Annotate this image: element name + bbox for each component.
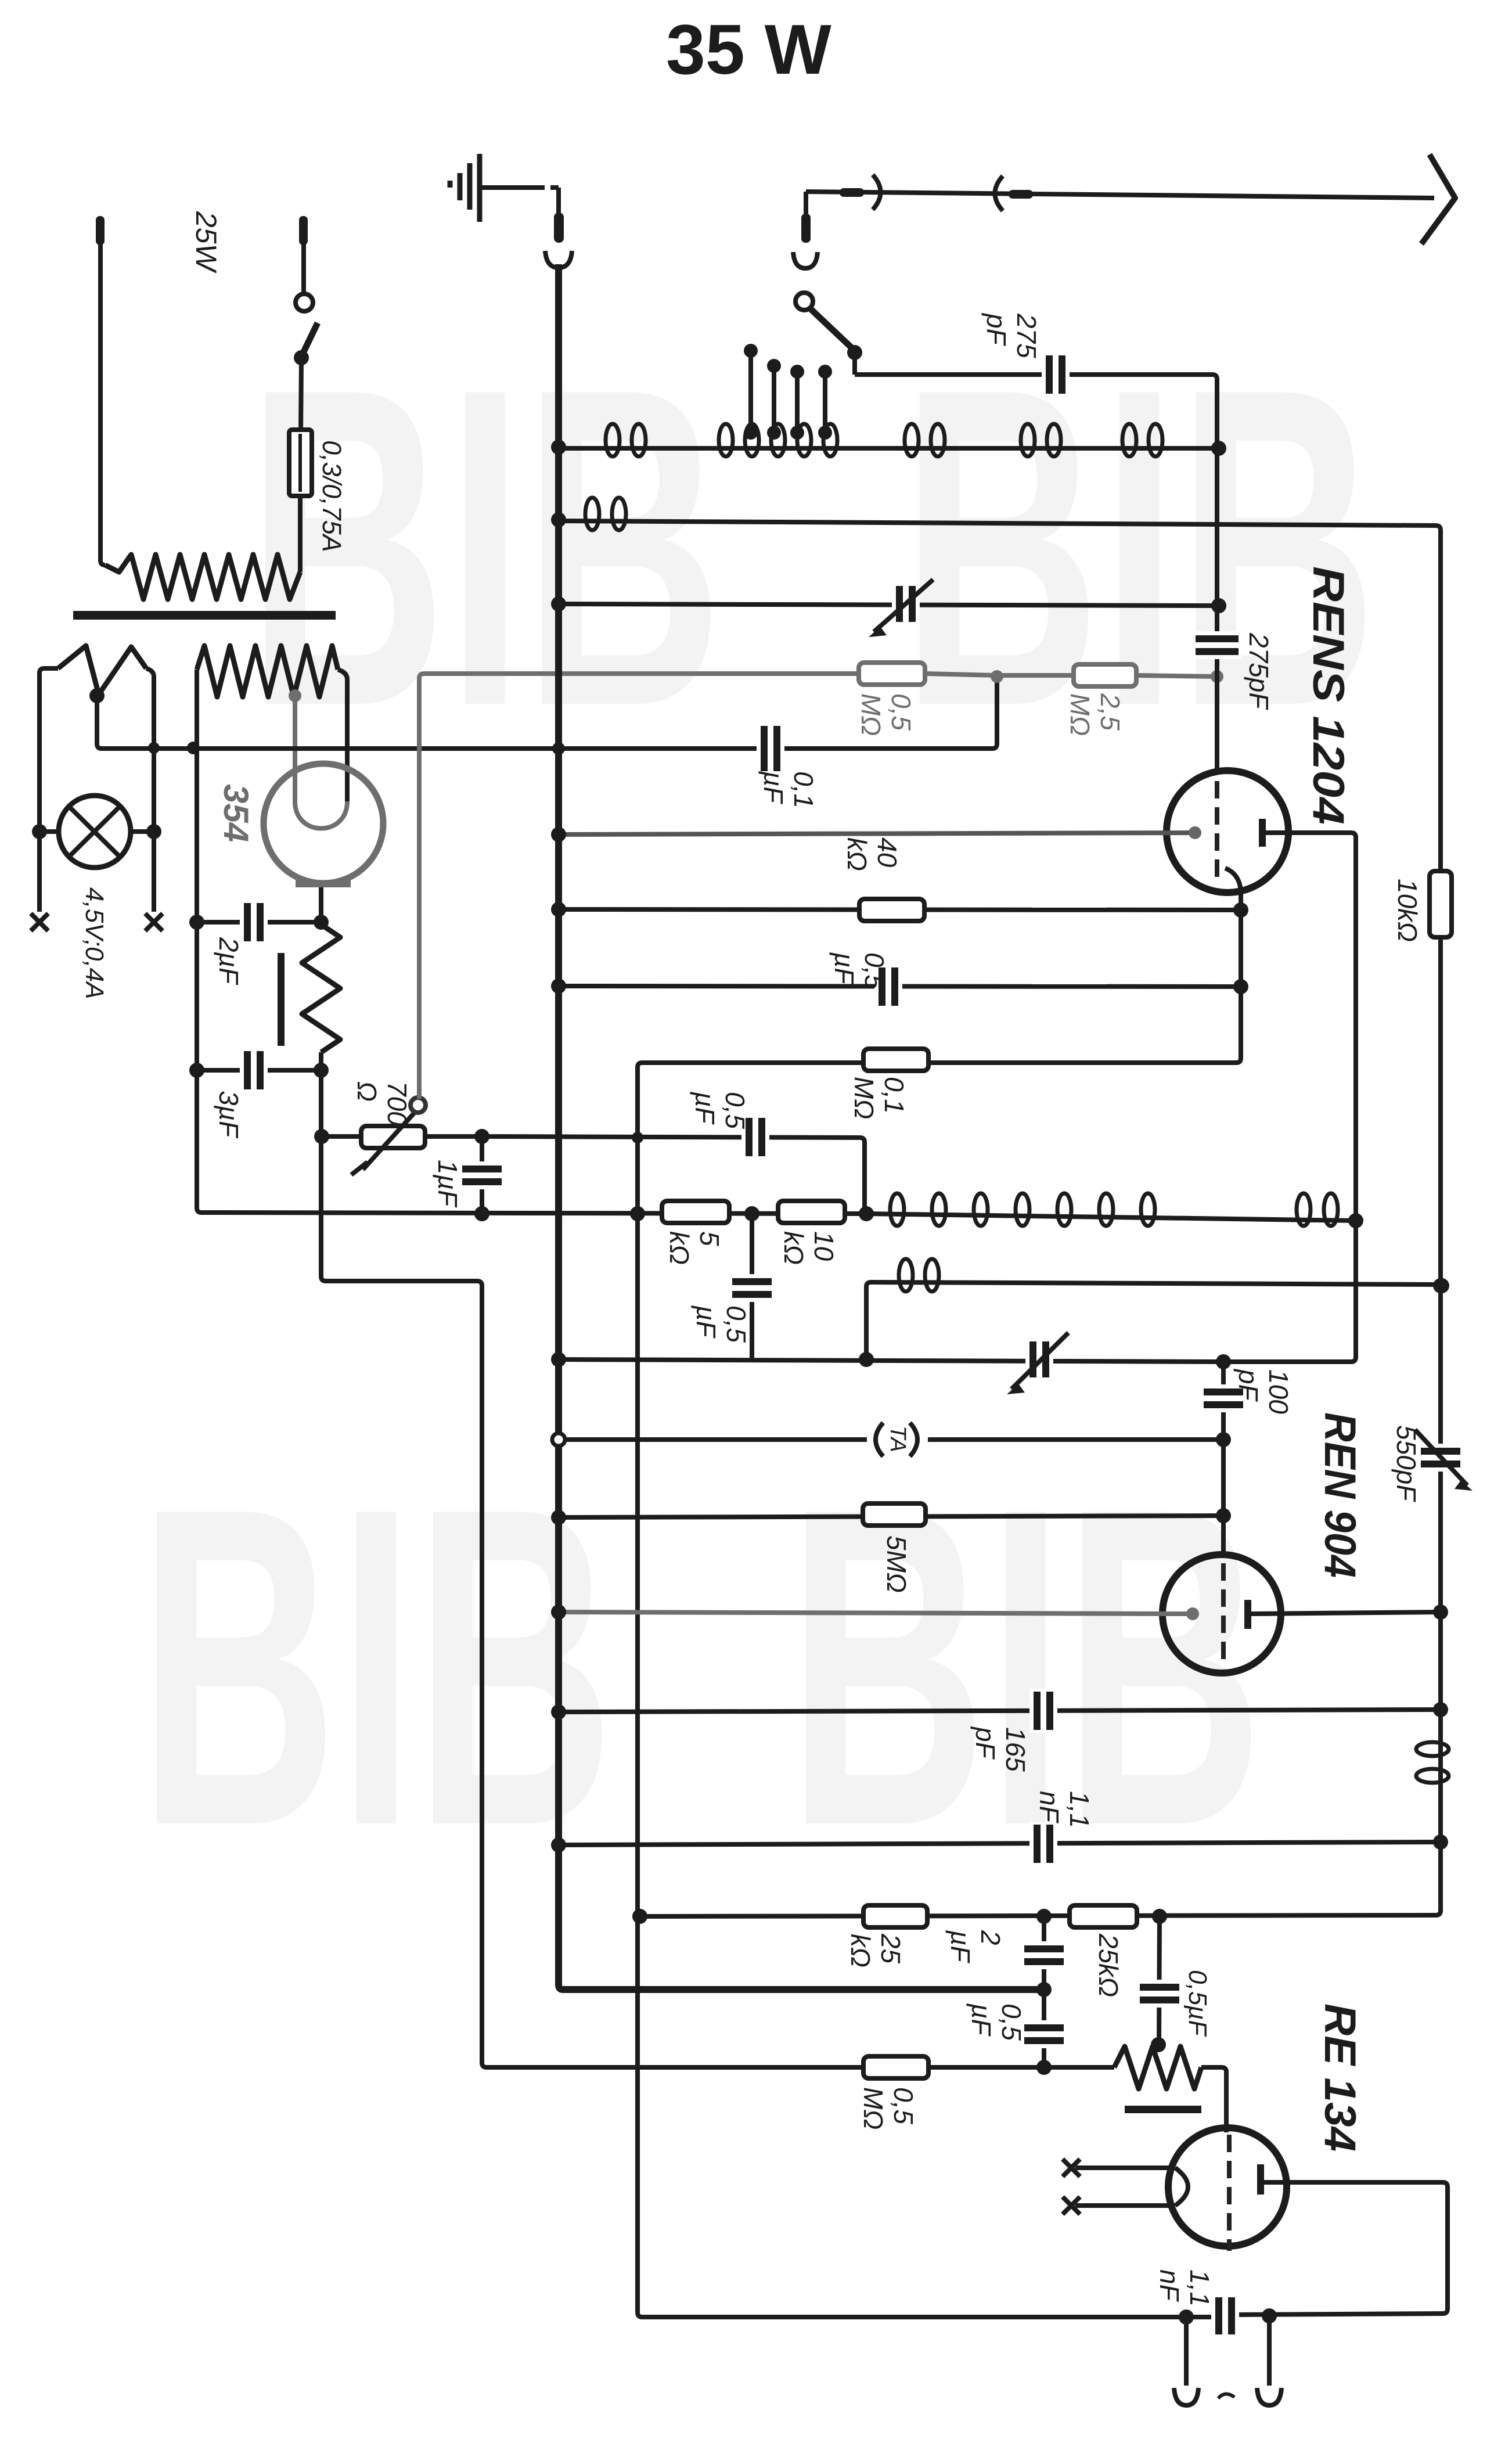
svg-text:REN 904: REN 904	[1315, 1412, 1365, 1578]
wire HT tap (gray)	[293, 696, 297, 803]
wire 40k line	[559, 909, 1241, 910]
capacitor 275pF (antenna)	[1042, 352, 1070, 397]
wire 0,5uF-e	[1159, 1916, 1160, 2045]
trimmer C (detector)	[1025, 1339, 1053, 1380]
wire 3uF line	[197, 1068, 321, 1073]
wire 165pF line	[559, 1710, 1441, 1712]
switch S1 lever	[301, 323, 318, 357]
0,5uF-e dot	[1151, 2037, 1166, 2052]
wire 25k line	[640, 1915, 1432, 1916]
mains lead L	[100, 244, 105, 565]
resistor 10 kOhm	[778, 1201, 845, 1223]
svg-text:4,5V;0,4A: 4,5V;0,4A	[80, 887, 109, 999]
resistor 25 kOhm B	[1070, 1905, 1137, 1927]
svg-text:10kΩ: 10kΩ	[1392, 879, 1423, 942]
svg-text:0,5µF: 0,5µF	[966, 2003, 1027, 2041]
tube RE134 envelope	[1168, 2128, 1287, 2246]
resistor 0,5 MOhm	[859, 663, 925, 685]
wire junction to 2,5M	[997, 673, 1074, 678]
L2 dot	[551, 512, 566, 527]
RE134 heater leads	[1075, 2165, 1175, 2170]
output dots	[1179, 2310, 1194, 2325]
wire tap to 0,1uF line	[97, 681, 997, 749]
capacitor 0,5uF-e	[1137, 1980, 1182, 2008]
svg-text:5MΩ: 5MΩ	[881, 1535, 912, 1593]
svg-text:2µF: 2µF	[214, 937, 244, 985]
bias bar RE134	[1125, 2106, 1201, 2113]
bias cell bar	[278, 953, 285, 1046]
capacitor 0,5uF-c	[729, 1274, 775, 1302]
resistor 5 MOhm	[863, 1503, 926, 1526]
wire grid tuning line	[559, 604, 1219, 606]
REN anode bar	[1244, 1600, 1251, 1629]
capacitor 1,1nF	[1029, 1822, 1057, 1866]
tube REN904 envelope	[1162, 1555, 1281, 1673]
svg-text:40kΩ: 40kΩ	[842, 837, 902, 871]
antenna arrow	[1421, 154, 1455, 244]
25k dots	[632, 1909, 647, 1924]
svg-text:25W: 25W	[190, 211, 222, 274]
tube RENS1204 envelope	[1167, 771, 1288, 893]
tube 354 cathode bar	[296, 880, 351, 887]
tap stubs	[748, 351, 753, 434]
L1 dots	[551, 440, 566, 455]
wire TA line R	[928, 1437, 1223, 1442]
fuse Si 0,3/0,75A	[289, 430, 312, 496]
svg-text:275pF: 275pF	[1244, 632, 1274, 710]
svg-text:0,5MΩ: 0,5MΩ	[856, 693, 916, 736]
switch S1 contact dot	[294, 350, 309, 365]
junction dot 0,5M	[991, 670, 1003, 683]
heater X marks	[1063, 2159, 1080, 2177]
svg-text:10kΩ: 10kΩ	[779, 1231, 839, 1265]
REN grid line (gray)	[559, 1612, 1193, 1614]
wire zig to 3uF	[319, 1052, 323, 1070]
capacitor 3uF	[240, 1048, 268, 1092]
antenna jack cup	[793, 252, 818, 268]
wire 2,5M to grid rail	[1136, 675, 1217, 677]
pot junction dot	[314, 1129, 329, 1144]
TA jack	[876, 1423, 883, 1456]
heater tap dot	[89, 688, 105, 703]
watermark	[138, 294, 1377, 1920]
wire 100pF	[1221, 1362, 1226, 1440]
svg-text:3µF: 3µF	[214, 1091, 244, 1139]
resistor 5 kOhm	[662, 1201, 729, 1223]
ground plug pin	[556, 188, 561, 214]
transformer HT winding (right)	[197, 646, 338, 697]
wire 2uF line	[197, 920, 321, 924]
svg-text:354: 354	[217, 784, 255, 842]
trimmer C (tuning)	[892, 583, 920, 625]
wire 5M line	[559, 1516, 1223, 1517]
capacitor 1uF	[459, 1161, 505, 1189]
wire RENS anode rail	[1223, 833, 1356, 1362]
transformer core	[73, 611, 336, 620]
resistor 40 kOhm	[859, 899, 924, 921]
capacitor 0,5uF-d	[1021, 2020, 1067, 2048]
wire pot L	[322, 1134, 361, 1139]
pot wiper circle	[411, 1098, 426, 1113]
TA dot	[1216, 1432, 1231, 1447]
capacitor 0,5uF-b	[741, 1115, 769, 1159]
wire RE134 anode out	[1233, 2182, 1448, 2315]
rectifier filament arc	[295, 801, 347, 829]
wire 100pF to REN grid	[1221, 1440, 1226, 1556]
svg-text:550pF: 550pF	[1391, 1425, 1421, 1502]
wire pot R	[425, 1134, 482, 1139]
wire 0,5M to junction	[925, 674, 997, 675]
wire RENS grid line	[559, 833, 1195, 834]
detector coil L3	[866, 1214, 1356, 1221]
L4 dots	[859, 1352, 874, 1367]
svg-text:2,5MΩ: 2,5MΩ	[1065, 693, 1125, 736]
svg-text:25kΩ: 25kΩ	[845, 1933, 906, 1967]
tap dots bottom	[744, 426, 758, 440]
RE134 filament arc	[1175, 2168, 1188, 2206]
1uF bottom dot	[474, 1206, 489, 1221]
antenna plug B	[995, 176, 1003, 211]
svg-text:0,5µF: 0,5µF	[829, 952, 890, 990]
wire REN anode	[1251, 1612, 1441, 1614]
grid zigzag RE134	[1114, 2046, 1201, 2089]
ground symbol	[477, 154, 483, 222]
coil on rail	[1416, 1742, 1449, 1756]
junction dots lamp	[32, 824, 47, 839]
terminal X right	[145, 913, 163, 931]
lamp leads	[39, 829, 59, 834]
antenna plug A	[840, 188, 864, 197]
grid rail dot gray	[1211, 670, 1223, 683]
svg-text:0,5MΩ: 0,5MΩ	[858, 2087, 919, 2129]
ant switch lever	[810, 308, 852, 348]
transformer primary winding	[105, 555, 300, 599]
chain dot2	[1036, 2060, 1052, 2075]
wire HT right end	[338, 670, 347, 803]
wire cathode rail down	[321, 1070, 1114, 2067]
RE134 anode bar	[1257, 2164, 1264, 2195]
feedback coil L4	[866, 1282, 1442, 1359]
svg-text:RE 134: RE 134	[1315, 2003, 1365, 2152]
L3 end dot	[1348, 1213, 1363, 1228]
pot R dot	[474, 1129, 489, 1144]
svg-text:0,5µF: 0,5µF	[1183, 1970, 1212, 2037]
output terminal A	[1184, 2317, 1189, 2386]
RENS grid dashes	[1215, 781, 1219, 798]
wire HT feed rail	[1432, 526, 1441, 1915]
tap dots top	[744, 344, 758, 358]
capacitor 1,1nF-b	[1211, 2294, 1239, 2337]
wire 354 cathode	[319, 887, 323, 920]
40k dots	[551, 902, 566, 917]
svg-text:0,1µF: 0,1µF	[758, 771, 819, 808]
wire S1 to fuse	[301, 358, 301, 433]
wire ant corner	[804, 192, 808, 236]
wire heater R	[146, 668, 154, 912]
transformer heater winding (left)	[58, 646, 146, 695]
capacitor 2uF	[240, 900, 268, 944]
tap dot gray	[289, 689, 301, 702]
main bus	[559, 264, 1044, 1990]
y2090 dots	[474, 1206, 489, 1221]
ground jack cup	[545, 251, 572, 268]
capacitor 0,5uF-a	[874, 965, 902, 1009]
1,1nF dots	[551, 1837, 566, 1852]
resistor 0,5 MOhm (output)	[863, 2056, 928, 2078]
ant switch dot	[847, 345, 862, 360]
grid rail dot	[1211, 598, 1226, 613]
junction dots 2uF	[189, 915, 204, 930]
wire grid rail	[1215, 445, 1219, 774]
grid line dots	[551, 596, 566, 611]
wire sw to 275pF	[852, 352, 857, 375]
wire 0,5uF-c	[750, 1214, 754, 1359]
REN grid dashes	[1221, 1563, 1226, 1581]
trimmer 550pF	[1418, 1444, 1463, 1472]
coupling coil L2	[559, 521, 1436, 526]
resistor 10 kOhm (vert)	[1430, 871, 1452, 937]
switch S1 knob	[296, 294, 313, 311]
svg-text:35 W: 35 W	[666, 10, 832, 89]
wire HT- rail	[197, 670, 866, 1214]
TA ring	[552, 1433, 565, 1446]
RE134 grid dashes	[1227, 2135, 1232, 2152]
svg-text:BIB: BIB	[138, 1414, 614, 1920]
lamp La 4,5V	[59, 796, 131, 868]
switch S1 pin	[301, 244, 306, 294]
terminal X left	[31, 913, 48, 931]
165pF dots	[551, 1704, 566, 1719]
wire heater L	[39, 668, 58, 912]
wire 0,5uF-a line	[559, 986, 1241, 987]
output terminal B	[1267, 2316, 1272, 2386]
wire 2uF chain	[1042, 1916, 1046, 2067]
rail dots	[1433, 1278, 1448, 1293]
chain dot1	[1036, 1982, 1052, 1997]
RENS anode bar	[1259, 819, 1266, 847]
svg-text:0,3/0,75A: 0,3/0,75A	[317, 440, 347, 552]
RENS cathode hook	[1225, 868, 1241, 891]
svg-text:0,1MΩ: 0,1MΩ	[849, 1077, 909, 1119]
capacitor 0,1uF	[757, 723, 784, 774]
resistor 2,5 MOhm	[1074, 664, 1136, 686]
potentiometer 700 Ohm body	[361, 1126, 425, 1148]
capacitor 275pF (grid)	[1193, 631, 1241, 659]
tap line junction dots	[148, 742, 160, 754]
RENS grid line dots	[551, 827, 566, 842]
pot arrow	[363, 1113, 414, 1170]
resistor 25 kOhm A	[863, 1905, 927, 1927]
svg-text:25kΩ: 25kΩ	[1093, 1933, 1124, 1997]
dot x1098-1959	[632, 1132, 643, 1143]
svg-text:0,5µF: 0,5µF	[690, 1091, 750, 1129]
wire 275pF line	[855, 375, 1217, 445]
wire 1,1nF line	[559, 1842, 1441, 1845]
junction dots 3uF	[189, 1063, 204, 1078]
svg-text:TA: TA	[885, 1426, 910, 1452]
wire fuse to primary	[298, 495, 303, 572]
capacitor 100pF	[1201, 1384, 1246, 1412]
0,5uF-a dots	[551, 979, 566, 994]
squiggle	[1218, 2394, 1234, 2398]
svg-text:0,5µF: 0,5µF	[691, 1305, 751, 1343]
antenna coil L1	[559, 446, 1219, 451]
antenna lead	[806, 192, 1434, 198]
wire RENS cathode rail	[638, 891, 1241, 2317]
5M dots	[551, 1510, 566, 1525]
wire TA line L	[559, 1437, 867, 1442]
capacitor 2uF-b	[1021, 1941, 1067, 1969]
wire bias to RE134 grid	[1201, 2067, 1226, 2132]
wire screen rail (gray)	[419, 674, 859, 1099]
REN grid dots	[551, 1605, 566, 1620]
ant switch knob	[795, 293, 813, 310]
wire 1uF	[480, 1136, 484, 1214]
svg-text:RENS 1204: RENS 1204	[1304, 566, 1353, 825]
tube 354 envelope	[264, 764, 383, 883]
capacitor 165pF	[1029, 1689, 1057, 1733]
resistor 0,1 MOhm	[863, 1049, 928, 1071]
wire AVC line	[559, 1359, 1223, 1362]
AVC dots	[551, 1352, 566, 1367]
svg-text:1µF: 1µF	[433, 1160, 463, 1208]
resistor cathode zigzag	[302, 924, 340, 1052]
wire 0,5uF-b line	[482, 1136, 865, 1209]
